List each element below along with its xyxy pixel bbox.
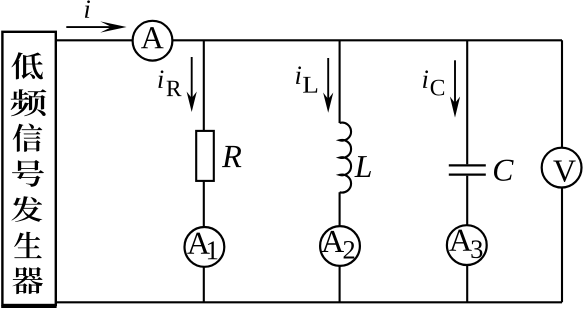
current arrow iR head bbox=[187, 92, 197, 113]
ammeter A1 letters bbox=[187, 233, 210, 254]
box label char 发 bbox=[11, 196, 42, 222]
label R bbox=[222, 146, 241, 167]
box label char 低 bbox=[11, 52, 43, 79]
current arrow i line bbox=[66, 26, 112, 28]
wire L branch upper bbox=[339, 40, 341, 123]
label iL bbox=[296, 66, 301, 83]
current arrow iL head bbox=[323, 93, 333, 113]
box label char 生 bbox=[14, 232, 42, 258]
resistor R body bbox=[196, 131, 214, 181]
box label char 频 bbox=[11, 89, 47, 116]
wire C branch upper bbox=[466, 40, 468, 164]
wire C branch lower bbox=[466, 176, 468, 303]
inductor L coil bbox=[340, 123, 351, 193]
ammeter A3 circle bbox=[447, 225, 487, 265]
current arrow iC line bbox=[454, 60, 456, 104]
ammeter A2 circle bbox=[320, 226, 360, 266]
label L bbox=[354, 156, 371, 177]
ammeter A3 letters bbox=[449, 230, 472, 251]
wire R branch bbox=[203, 40, 205, 302]
box label char 信 bbox=[13, 124, 43, 152]
voltmeter V circle bbox=[542, 148, 582, 188]
ammeter A1 circle bbox=[185, 227, 225, 267]
wire right branch bbox=[561, 40, 563, 302]
current arrow iR line bbox=[191, 57, 193, 99]
capacitor C bottom plate bbox=[449, 174, 486, 176]
signal generator box bottom edge bbox=[1, 305, 56, 308]
ammeter A circle bbox=[133, 21, 173, 61]
wire bottom bus bbox=[56, 301, 562, 303]
ammeter A letter bbox=[141, 27, 164, 48]
wire top bus bbox=[56, 39, 562, 41]
label iR bbox=[158, 70, 163, 87]
current arrow iC head bbox=[450, 97, 460, 118]
current arrow i head bbox=[100, 21, 126, 32]
label C bbox=[494, 160, 514, 181]
capacitor C top plate bbox=[449, 164, 486, 166]
signal generator box bbox=[2, 32, 55, 305]
current arrow iL line bbox=[327, 58, 329, 100]
box label char 号 bbox=[12, 160, 44, 187]
box label char 器 bbox=[12, 267, 42, 294]
voltmeter V letter bbox=[553, 161, 575, 182]
label i bbox=[85, 0, 90, 17]
label iC bbox=[423, 70, 428, 87]
wire L branch lower bbox=[339, 192, 341, 302]
ammeter A2 letters bbox=[321, 231, 344, 252]
